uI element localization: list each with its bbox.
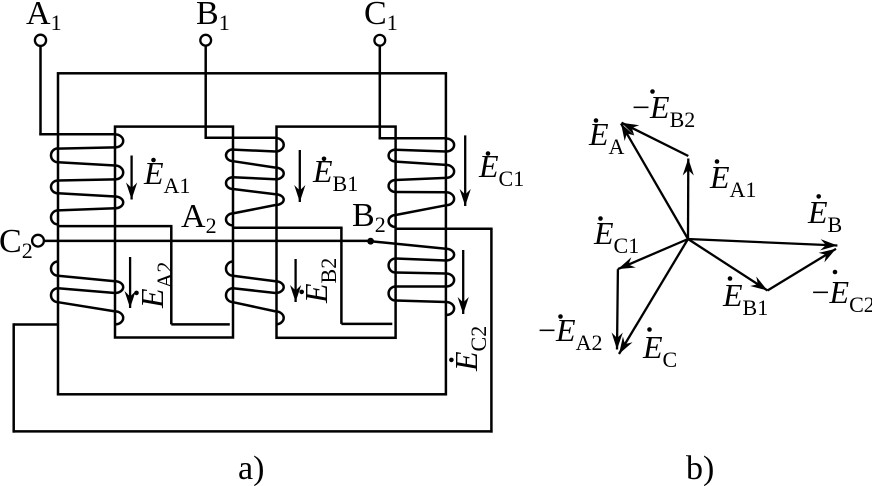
wire EB1 end to EC2 end [233,226,343,229]
arrow EB1 [299,150,301,202]
phasor -EB2 [622,123,689,156]
phasor EB1 [688,239,768,291]
label EB2 cct [300,258,332,303]
phasor EC1 [618,239,688,269]
label EA1 cct [144,157,190,189]
phasor EA [621,124,688,240]
dot -EC2 ph [833,270,838,275]
wire EA1 end to EB2 end (node A2 path) [58,225,173,228]
dot EA1 cct [151,158,156,163]
winding EC2 [446,249,454,261]
label EC ph [643,331,677,363]
arrow EC2 [462,250,464,314]
label EC1 ph [594,217,639,249]
caption b [686,452,714,486]
label EB1 ph [723,279,768,311]
label EB ph [808,196,842,228]
transformer core outline [58,73,446,394]
wire B1 lead [204,46,207,139]
winding EC1 [446,139,454,152]
node B2 junction dot [367,238,374,245]
arrow EC1 [464,135,466,206]
winding EB2 [276,281,284,293]
phasor EA1 [687,159,690,240]
core window 2 [277,127,396,338]
label EA2 cct [136,262,168,308]
wire EC1 end to EA2 end (outer loop) [396,227,493,230]
core window 1 [115,127,233,338]
caption a [238,452,264,486]
label EB1 cct [313,155,358,187]
terminal A1 [35,35,46,46]
dot EC2 rot [449,358,454,363]
dot EA ph [594,118,599,123]
label A2 [181,200,217,234]
label -EB2 ph [632,91,695,123]
arrow EB2 [294,259,296,302]
wire A1 lead [39,46,42,135]
wire C2 line [44,240,371,243]
wire C1 lead [379,46,382,140]
terminal C1 [374,35,385,46]
label C1 [364,0,398,31]
label B2 [352,199,386,233]
label A1 [26,0,62,31]
label EA ph [589,118,624,150]
arrow EA1 [130,156,132,200]
dot EC1 cct [486,151,491,156]
dot -EA2 ph [558,314,563,319]
label EA1 ph [710,161,756,193]
label EC2 cct [450,326,482,371]
dot EB1 ph [728,276,733,281]
winding EA2 [115,281,123,293]
phasor EB [688,239,837,246]
terminal C2 [32,235,44,247]
label B1 [196,0,230,31]
wire B2 to coil EC2 [371,241,446,249]
dot EC ph [647,327,652,332]
dot EA2 rot [134,291,139,296]
label EC1 cct [479,150,524,182]
phasor -EA2 [616,269,619,349]
label -EA2 ph [538,314,602,346]
dot EB2 rot [299,290,304,295]
label C2 [0,225,33,259]
phasor -EC2 [768,249,837,291]
dot EA1 ph [715,159,720,164]
terminal B1 [200,35,211,46]
phasor EC [619,239,688,354]
dot -EB2 ph [650,89,655,94]
dot EB1 cct [322,157,327,162]
arrow EA2 [129,257,131,308]
winding EB1 [276,138,284,152]
label -EC2 ph [812,276,872,308]
dot EB ph [816,194,821,199]
dot EC1 ph [598,216,603,221]
winding EA1 [115,134,123,147]
